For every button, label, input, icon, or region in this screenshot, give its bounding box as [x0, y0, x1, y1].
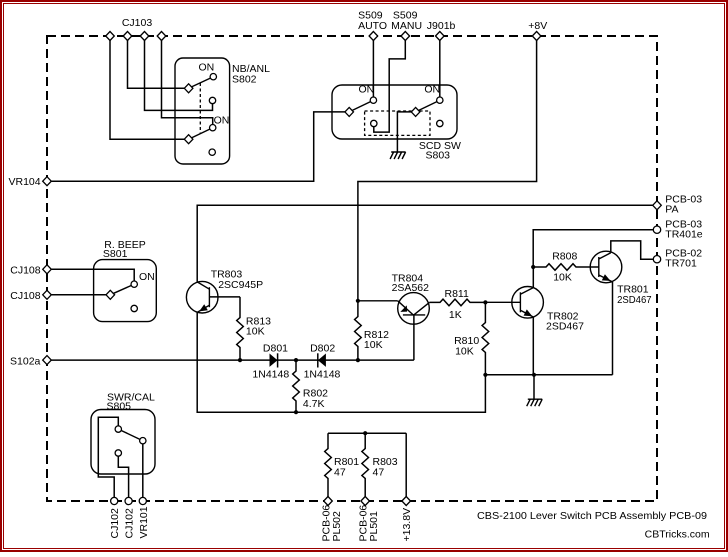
svg-text:S802: S802 [232, 74, 257, 86]
wire TR803 collector to PCB-03 PA [197, 205, 653, 282]
svg-text:S102a: S102a [10, 355, 41, 367]
S805 wire to VR101 [142, 441, 144, 501]
wire S803 pole2 common to ground [397, 112, 415, 152]
svg-text:VR104: VR104 [8, 176, 40, 188]
svg-text:TR401e: TR401e [665, 229, 703, 241]
svg-text:47: 47 [373, 466, 385, 478]
resistor R812 [355, 301, 362, 360]
svg-text:CJ108: CJ108 [10, 264, 41, 276]
S801 lever [110, 284, 134, 295]
resistor R808 [533, 264, 599, 271]
switch S805 body [91, 410, 155, 475]
connector diamond VR104 [43, 177, 52, 186]
wire ground stub [533, 375, 535, 399]
connector diamond PCB-06 PL502 [324, 497, 333, 506]
resistor R810 [482, 302, 489, 374]
transistor TR804 [358, 293, 430, 325]
svg-text:10K: 10K [455, 346, 474, 358]
svg-text:S805: S805 [107, 400, 132, 412]
svg-text:2SD467: 2SD467 [546, 321, 584, 333]
svg-text:R811: R811 [445, 288, 469, 300]
S803 contact circle pole2 lower [437, 120, 443, 126]
connector VR101 [139, 497, 146, 504]
svg-text:MANU: MANU [391, 20, 422, 32]
S801 common diamond [106, 290, 115, 299]
svg-text:2SD467: 2SD467 [617, 294, 652, 306]
connector diamond J901b [436, 32, 445, 41]
resistor R803 [362, 433, 369, 501]
svg-text:CJ102: CJ102 [124, 508, 136, 539]
svg-text:CBS-2100 Lever Switch PCB Asse: CBS-2100 Lever Switch PCB Assembly PCB-0… [477, 510, 707, 522]
switch S801 body [94, 260, 157, 322]
junction dots [238, 358, 242, 362]
svg-text:VR101: VR101 [138, 506, 150, 538]
S803 contact circle pole1 lower [371, 120, 377, 126]
svg-text:CJ102: CJ102 [109, 508, 121, 539]
svg-text:10K: 10K [364, 339, 383, 351]
resistor R813 [237, 297, 244, 360]
svg-text:2SA562: 2SA562 [392, 282, 430, 294]
connector diamond CJ108b [43, 290, 52, 299]
wire R801/R803/+13.8V top rail [328, 432, 406, 434]
S805 contact circle lower [115, 450, 121, 456]
svg-text:AUTO: AUTO [358, 20, 387, 32]
connector diamond PCB-03 PA [653, 201, 662, 210]
wire emitter ground rail [485, 374, 612, 376]
svg-text:+8V: +8V [528, 20, 547, 32]
connector PCB-02 TR701 [653, 256, 660, 263]
svg-text:PA: PA [665, 204, 678, 216]
S802 mechanical link (dashed) [199, 83, 201, 134]
svg-text:D802: D802 [310, 343, 335, 355]
ground [527, 399, 543, 406]
S803 contact circle pole2 ON [437, 97, 443, 103]
wire VR104 to S803 pole1 common [47, 112, 349, 181]
S805 lever [118, 429, 143, 441]
svg-text:S803: S803 [426, 149, 451, 161]
svg-text:4.7K: 4.7K [303, 398, 325, 410]
S803 pole1 common diamond [345, 107, 354, 116]
svg-text:S801: S801 [103, 248, 128, 260]
resistor R801 [325, 433, 332, 501]
svg-text:+13.8V: +13.8V [401, 508, 413, 542]
connector diamond CJ108a [43, 265, 52, 274]
wire CJ103-1 to S802 pole2 contact [110, 36, 189, 139]
connector diamond CJ103-2 [123, 32, 132, 41]
S802 contact circle bottom [209, 149, 215, 155]
S803 pole2 common diamond [411, 107, 420, 116]
wire S102a bus [47, 359, 414, 361]
S802 contact circle pole2 ON [210, 125, 216, 131]
svg-text:PL502: PL502 [331, 511, 343, 542]
wire TR801 emitter down [612, 282, 614, 375]
wire CJ103-4 to S802 pole2 ON contact [162, 36, 213, 128]
svg-text:10K: 10K [553, 272, 572, 284]
connector diamond PCB-06 PL501 [361, 497, 370, 506]
wire CJ108a to S801 ON [47, 269, 134, 284]
svg-text:PL501: PL501 [368, 511, 380, 542]
diode D802 [318, 353, 326, 367]
wire PCB-03 TR401e [533, 230, 653, 267]
S805 wire to CJ102b [118, 453, 128, 501]
svg-text:47: 47 [334, 466, 346, 478]
S802 contact circle middle [209, 97, 215, 103]
connector diamond S102a [43, 356, 52, 365]
S801 contact circle lower [131, 305, 137, 311]
ground [390, 152, 406, 159]
resistor R802 [293, 360, 300, 412]
wire +13.8V drop [405, 433, 407, 501]
svg-text:D801: D801 [263, 343, 288, 355]
connector diamond CJ103-3 [140, 32, 149, 41]
svg-text:1N4148: 1N4148 [252, 368, 289, 380]
wire S509 AUTO to S803 [372, 36, 374, 100]
switch S803 body [332, 85, 457, 139]
resistor R811 [429, 299, 485, 306]
svg-text:ON: ON [139, 271, 155, 283]
wire TR803 emitter loop [197, 312, 485, 412]
svg-text:J901b: J901b [427, 20, 456, 32]
svg-text:ON: ON [214, 114, 230, 126]
svg-text:ON: ON [424, 83, 440, 95]
wire S509 MANU to S803 [374, 36, 406, 132]
transistor TR801 [590, 251, 622, 283]
wire J901b to S803 [439, 36, 441, 100]
S805 wiring to CJ102a [98, 417, 118, 501]
connector diamond +8V [532, 32, 541, 41]
S805 contact circle top [115, 426, 121, 432]
wire CJ103-3 to S802 middle contact [145, 36, 213, 110]
wire TR801 collector to PCB-02 TR701 [611, 241, 653, 259]
S802 pole2 common diamond [184, 135, 193, 144]
S802 pole1 lever [189, 77, 214, 89]
svg-text:ON: ON [359, 83, 375, 95]
wire CJ103-2 to S802 pole1 contact [128, 36, 189, 88]
S801 contact circle ON [131, 281, 137, 287]
svg-text:1N4148: 1N4148 [304, 368, 341, 380]
svg-text:1K: 1K [449, 309, 462, 321]
wire TR803 base to R813 [209, 296, 240, 298]
connector diamond CJ103-1 [106, 32, 115, 41]
S803 pole2 lever [416, 100, 440, 112]
wire TR804 base drop [413, 315, 415, 360]
diode D801 [270, 353, 278, 367]
S802 contact circle pole1 ON [210, 74, 216, 80]
S803 pole1 lever [349, 100, 373, 112]
connector diamond S509 MANU [401, 32, 410, 41]
connector CJ102b [125, 497, 132, 504]
connector diamond CJ103-4 [157, 32, 166, 41]
transistor TR803 [186, 281, 218, 313]
svg-text:CBTricks.com: CBTricks.com [645, 528, 710, 540]
switch S802 body [175, 58, 230, 164]
connector diamond +13.8V [402, 497, 411, 506]
connector CJ102a [111, 497, 118, 504]
S805 contact circle right [140, 438, 146, 444]
S803 contact circle pole1 ON [370, 97, 376, 103]
svg-text:2SC945P: 2SC945P [218, 279, 263, 291]
wire CJ108b to S801 common [47, 294, 110, 296]
S802 pole2 lever [189, 128, 213, 140]
svg-text:TR701: TR701 [665, 258, 697, 270]
svg-text:CJ108: CJ108 [10, 290, 41, 302]
connector diamond S509 AUTO [369, 32, 378, 41]
svg-text:CJ103: CJ103 [122, 17, 153, 29]
connector PCB-03 TR401e [653, 226, 660, 233]
wire +8V rail [358, 36, 537, 301]
svg-text:ON: ON [199, 62, 215, 74]
PCB dashed border [47, 36, 657, 501]
transistor TR802 [485, 267, 543, 375]
S803 mechanical link (dashed) [365, 111, 430, 135]
svg-text:R808: R808 [552, 251, 577, 263]
svg-text:10K: 10K [246, 326, 265, 338]
S802 pole1 common diamond [184, 84, 193, 93]
